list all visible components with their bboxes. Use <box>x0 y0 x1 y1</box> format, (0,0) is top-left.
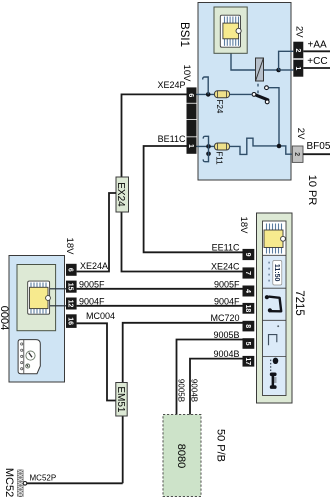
svg-text:XE24A: XE24A <box>80 261 108 271</box>
svg-text:2: 2 <box>294 49 301 53</box>
svg-text:1: 1 <box>187 144 194 148</box>
7215 display icon 11:50 <box>268 261 282 286</box>
svg-text:15: 15 <box>66 283 73 291</box>
icon cells background <box>263 256 286 395</box>
svg-text:9005B: 9005B <box>176 379 185 402</box>
svg-text:18V: 18V <box>64 238 75 256</box>
svg-text:1: 1 <box>294 66 301 70</box>
BSI1 left connector strip <box>187 87 197 153</box>
EM51 inline connector <box>116 383 127 417</box>
svg-text:12: 12 <box>66 300 73 308</box>
svg-text:BSI1: BSI1 <box>178 22 190 47</box>
switch blade <box>254 94 268 100</box>
0004 chip icon <box>17 265 56 331</box>
wire BE11C to EE11C <box>144 146 243 252</box>
junction dot relay output <box>276 68 281 73</box>
0004 gauge icon <box>18 340 40 374</box>
7215 chip icon <box>264 224 285 254</box>
wire XE24P net (pin6 to EX24 to XE24C) <box>122 94 243 271</box>
MC52 ground splice bar (hatched) <box>18 470 23 497</box>
svg-text:7215: 7215 <box>293 290 305 316</box>
wire 9004F <box>77 305 243 307</box>
svg-text:5: 5 <box>244 342 251 346</box>
cell divider lines <box>263 255 287 356</box>
wire +AA <box>303 50 330 52</box>
svg-text:EX24: EX24 <box>115 182 126 207</box>
switch pivot circle <box>252 93 256 97</box>
svg-text:7: 7 <box>244 271 251 275</box>
wire to MC52P ground <box>27 482 123 484</box>
svg-text:MC52: MC52 <box>3 468 15 497</box>
svg-text:9004B: 9004B <box>213 349 239 359</box>
junction dot pin1 <box>206 144 211 149</box>
svg-text:18V: 18V <box>238 217 249 235</box>
svg-text:+AA: +AA <box>308 40 328 51</box>
svg-text:10 PR: 10 PR <box>306 175 318 206</box>
off-page stub up from pin1 dot <box>203 136 208 146</box>
7215 connector strip pins <box>243 249 255 367</box>
wire 9004B <box>190 359 243 415</box>
svg-text:EM51: EM51 <box>115 386 126 413</box>
wire BE11C through F11 with jogs to BF05 <box>197 145 215 147</box>
svg-text:MC720: MC720 <box>210 313 239 323</box>
wire switch to BF05 node <box>269 88 280 146</box>
junction dot 2 below pin1 <box>206 152 211 157</box>
svg-text:17: 17 <box>244 357 251 365</box>
mechanical link dashes <box>257 84 259 94</box>
wire node to +AA pin 2 <box>279 51 294 70</box>
wire node to +CC pin 1 <box>279 69 294 71</box>
svg-text:2V: 2V <box>295 128 306 140</box>
BF05 connector pin <box>292 146 303 162</box>
svg-text:4: 4 <box>244 289 251 293</box>
relay K coil <box>256 58 264 81</box>
svg-text:XE24P: XE24P <box>157 80 185 90</box>
wire pin6 through F24 to switch <box>197 93 215 95</box>
svg-text:6: 6 <box>187 93 194 97</box>
connector +AA/+CC block <box>293 42 303 77</box>
7215 phone icon <box>270 358 279 389</box>
svg-text:50 P/B: 50 P/B <box>215 429 227 462</box>
0004 connector strip <box>66 264 77 328</box>
svg-text:9004F: 9004F <box>79 296 105 306</box>
wire BF05 <box>303 153 330 155</box>
ECU chip icon (BSI1) <box>214 7 247 53</box>
EX24 inline connector <box>116 177 129 212</box>
svg-text:11:50: 11:50 <box>273 264 280 282</box>
fuse F11 <box>215 143 230 150</box>
svg-text:9005F: 9005F <box>214 279 240 289</box>
8080 box (dashed) <box>163 415 201 497</box>
svg-text:0004: 0004 <box>0 306 10 330</box>
svg-text:MC004: MC004 <box>86 311 115 321</box>
0004 box <box>9 256 65 383</box>
wire MC720 <box>123 323 243 484</box>
off-page stub down <box>203 146 208 161</box>
svg-text:XE24C: XE24C <box>211 262 240 272</box>
switch bottom contact circle <box>265 100 269 104</box>
svg-text:9005B: 9005B <box>213 330 239 340</box>
svg-text:F11: F11 <box>215 151 224 165</box>
switch top contact circle <box>265 86 269 90</box>
svg-text:+CC: +CC <box>307 56 327 67</box>
wire 9005B <box>177 340 243 415</box>
fuse F24 <box>215 91 230 98</box>
off-page stub (up) <box>203 77 208 94</box>
svg-text:2V: 2V <box>294 26 305 38</box>
wire +CC <box>303 67 330 69</box>
svg-text:EE11C: EE11C <box>212 242 240 252</box>
wire relay to node <box>264 69 279 71</box>
wire chip to relay coil <box>231 53 263 71</box>
7215 inner white panel <box>263 221 287 396</box>
wire 9005F <box>77 288 243 290</box>
svg-text:F24: F24 <box>215 100 224 114</box>
7215 box <box>257 213 293 403</box>
wire MC004 <box>77 323 116 400</box>
MC52P ring terminal <box>23 482 27 486</box>
svg-text:2: 2 <box>293 152 300 156</box>
svg-text:MC52P: MC52P <box>30 473 57 482</box>
svg-text:18: 18 <box>244 305 251 313</box>
svg-text:9004F: 9004F <box>214 296 240 306</box>
svg-text:9005F: 9005F <box>79 279 105 289</box>
junction dot F11 line / switch branch <box>277 144 282 149</box>
svg-text:9004B: 9004B <box>190 379 199 402</box>
svg-text:BE11C: BE11C <box>158 134 186 144</box>
0004 internal lines to pins 15/12 <box>50 288 66 290</box>
svg-text:8080: 8080 <box>175 444 187 468</box>
svg-text:BF05: BF05 <box>307 141 330 152</box>
svg-text:8: 8 <box>244 324 251 328</box>
7215 music note icon <box>265 295 281 312</box>
7215 bracket icon <box>269 325 280 345</box>
BSI1 box <box>198 3 291 181</box>
junction dot pin6 <box>206 92 211 97</box>
svg-text:6: 6 <box>66 268 73 272</box>
svg-text:16: 16 <box>66 317 73 325</box>
wire XE24A branch <box>77 193 116 272</box>
svg-text:9: 9 <box>244 253 251 257</box>
